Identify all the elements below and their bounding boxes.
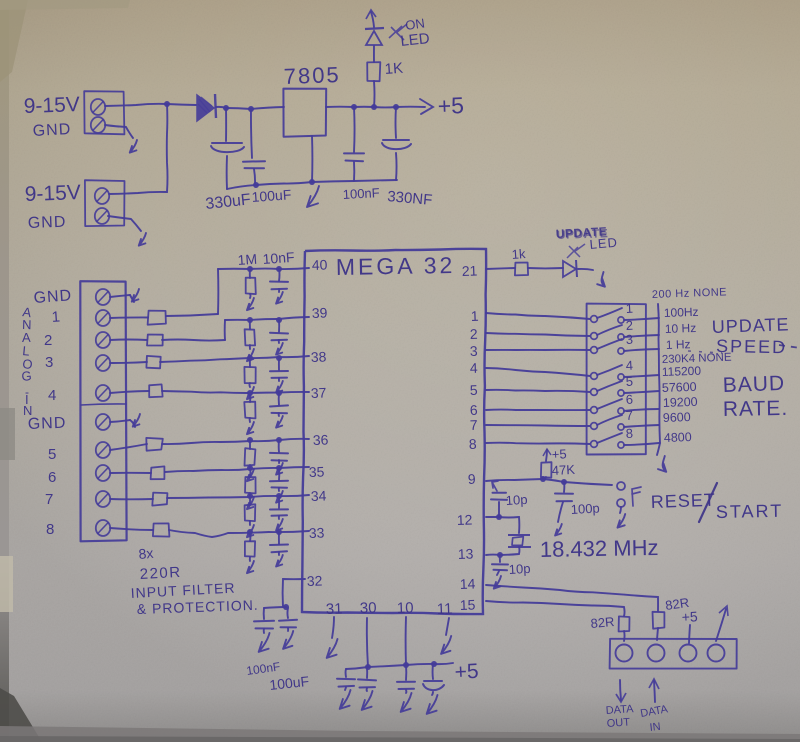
capacitor C3 100nF lead	[353, 107, 356, 152]
svg-text:8: 8	[625, 426, 633, 441]
svg-text:7: 7	[470, 417, 479, 433]
wire J1.2 hook to ground	[105, 125, 133, 138]
switch S1.3 throw contact	[618, 348, 624, 354]
resistor R1M-7 lead	[249, 496, 251, 505]
svg-text:19200: 19200	[663, 395, 698, 410]
wire U1 pin3 to switch S1.3	[486, 349, 590, 351]
label 9600	[663, 410, 691, 425]
ground rail (input side)	[227, 182, 312, 189]
svg-text:37: 37	[311, 384, 327, 401]
capacitor C10n-1 10nF	[270, 282, 288, 290]
wire R2 to filter net 1	[166, 314, 218, 316]
wire reset node to node C100p	[543, 479, 564, 482]
label 115200	[662, 364, 702, 379]
switch S1.2 lever	[597, 325, 622, 335]
ground below C13	[494, 571, 501, 589]
capacitor C6 100uF	[279, 620, 297, 628]
svg-text:33: 33	[309, 524, 325, 541]
label 7805	[283, 62, 341, 89]
node filter2C junction	[276, 317, 282, 323]
J4 screw terminal 3	[96, 332, 110, 348]
J5.3 +5 lead	[689, 625, 690, 643]
C11 ground tail	[555, 502, 563, 536]
ground below C10n-3	[276, 378, 283, 393]
node filter4R junction	[247, 390, 253, 396]
svg-text:57600: 57600	[662, 380, 697, 395]
U1 pin 1 number label	[471, 308, 480, 324]
node X1b junction	[497, 552, 503, 558]
wire S1.5 to common bus	[624, 391, 659, 393]
U1 pin 12 number label	[457, 511, 473, 528]
ground below pin11	[441, 636, 451, 654]
node A junction	[164, 101, 170, 107]
U1 pin 6 number label	[470, 402, 479, 418]
U1 pin 30 number label	[360, 599, 377, 617]
capacitor C4 330nF (electrolytic)	[382, 140, 411, 149]
wire J4.5 to resistor R6	[110, 444, 147, 450]
J4 screw terminal 10	[96, 520, 110, 536]
label & PROTECTION	[137, 597, 259, 617]
node filter6C junction	[276, 465, 282, 471]
switch S1.4 throw contact	[618, 374, 624, 380]
label GND (J1)	[32, 121, 71, 140]
label switch position 4	[625, 358, 633, 373]
resistor R3 47K	[541, 462, 552, 478]
wire J4.8 to resistor R9	[110, 528, 153, 530]
capacitor C13 10p	[492, 564, 508, 570]
J5 pin 3 hole	[680, 645, 697, 662]
dashed line after SPEED	[688, 345, 800, 353]
node G junction	[371, 104, 377, 110]
serial header J5	[610, 639, 737, 669]
U1 pin 9 number label	[468, 471, 477, 487]
wire U1 pin9 to reset node	[486, 479, 543, 481]
label 4800	[664, 430, 692, 445]
switch S1.1 pole contact	[591, 316, 598, 323]
C4 lead to rail	[395, 153, 398, 180]
wire node A down to J2.1	[109, 104, 168, 194]
wire node C to U2 input	[251, 107, 284, 109]
capacitor C10n-6 10nF	[270, 481, 288, 488]
capacitor C13 10p lead	[499, 555, 501, 562]
svg-text:GND: GND	[28, 415, 67, 433]
wire to reset switch	[564, 482, 612, 485]
U1 pin 38 number label	[311, 348, 327, 365]
svg-text:15: 15	[460, 596, 476, 613]
wire U1 pin8 to switch S1.8	[486, 443, 590, 444]
resistor R1M-6 lead	[249, 468, 251, 477]
svg-text:18.432 MHz: 18.432 MHz	[540, 535, 659, 562]
wire R5 to filter net 4	[162, 391, 309, 393]
switch S1.5 pole contact	[591, 389, 598, 396]
switch S1.3 pole contact	[591, 347, 598, 354]
U1 pin31 lead	[332, 617, 334, 638]
switch S1.6 throw contact	[618, 408, 624, 414]
resistor R5 220R (input 4)	[149, 384, 162, 397]
svg-text:13: 13	[458, 545, 474, 562]
LED D3 UPDATE indicator	[563, 244, 585, 277]
wire J2.2 hook to ground	[108, 216, 141, 231]
U1 pin 11 number label	[437, 600, 453, 618]
ground symbol below J2	[139, 233, 146, 246]
capacitor C10n-4 10nF	[270, 405, 288, 413]
ground above C12	[492, 481, 498, 491]
svg-text:11: 11	[437, 600, 453, 618]
U1 pin 39 number label	[312, 304, 328, 321]
U1 pin 5 number label	[470, 382, 479, 398]
C1 lead to rail	[226, 156, 228, 189]
ground below C10n-1	[276, 289, 283, 304]
ground below R1M-4	[247, 418, 254, 434]
wire R7 to filter net 6	[165, 467, 309, 472]
C3 lead to rail	[353, 162, 355, 181]
J4 screw terminal 4	[96, 355, 110, 371]
capacitor C10n-8 lead	[278, 532, 280, 544]
wire S1.3 to common bus	[624, 349, 659, 351]
capacitor C9 lead	[405, 665, 407, 680]
switch S1.7 lever	[597, 415, 622, 425]
capacitor C1 330uF lead	[225, 108, 227, 141]
svg-text:10p: 10p	[505, 492, 527, 508]
label switch position 7	[625, 408, 633, 423]
wire U1 pin4 to switch S1.4	[486, 368, 590, 376]
wire J4.1 to resistor R2	[110, 316, 148, 319]
capacitor C7 lead	[345, 669, 347, 677]
wire J4.7 to resistor R8	[110, 498, 153, 500]
svg-text:8: 8	[46, 521, 54, 538]
label GND (J4 mid)	[28, 415, 67, 433]
svg-text:DATA: DATA	[605, 703, 634, 717]
label GND (J2)	[28, 214, 67, 232]
capacitor C10n-3 lead	[278, 358, 280, 370]
svg-text:8x: 8x	[138, 545, 154, 562]
resistor R5 82R	[653, 612, 665, 629]
node C10 junction	[431, 661, 437, 667]
resistor R1M-4 lead	[249, 393, 251, 402]
resistor R1M-1 lead	[249, 269, 251, 278]
R3 lead to node	[544, 477, 546, 479]
ground symbol below U2	[307, 186, 319, 207]
capacitor C10n-2 lead	[278, 320, 280, 332]
switch S1.3 lever	[597, 339, 622, 349]
resistor R1M-7 1M	[245, 504, 256, 521]
resistor R4 220R (input 3)	[146, 356, 160, 368]
svg-text:115200: 115200	[662, 364, 702, 379]
switch S1.5 lever	[597, 381, 622, 391]
label 4	[48, 387, 56, 404]
label switch position 3	[625, 332, 633, 347]
ground below C10n-8	[276, 552, 283, 567]
vertical label dash	[25, 385, 29, 399]
svg-text:9-15V: 9-15V	[24, 181, 81, 206]
J4 screw terminal 6	[96, 414, 110, 430]
svg-text:+5: +5	[437, 92, 464, 119]
switch S1.1 lever	[597, 308, 622, 318]
J4 screw terminal 1	[96, 289, 110, 305]
resistor R1M-5 1M	[245, 448, 256, 466]
node filter7R junction	[247, 493, 253, 499]
vertical label ANALOG letter L	[22, 343, 31, 359]
wire D1 to node B	[216, 107, 226, 108]
label switch position 5	[625, 374, 633, 389]
resistor R7 220R (input 6)	[151, 466, 165, 479]
ground below C10n-6	[276, 488, 283, 503]
label 10nF (filter caps)	[262, 249, 295, 267]
wire node F to node G	[354, 106, 374, 108]
label 1	[51, 308, 61, 326]
capacitor C10n-4 lead	[278, 393, 280, 405]
resistor R2 1k	[515, 263, 528, 276]
capacitor C11 100p	[555, 494, 573, 502]
J5 pin 2 hole	[648, 645, 665, 662]
+5 arrow above R3	[543, 449, 551, 461]
wire U2 out to node F	[326, 106, 354, 108]
wire U1 pin1 to switch S1.1	[486, 313, 590, 319]
J5 pin 4 hole	[708, 645, 725, 662]
resistor R1M-2 lead	[249, 320, 251, 329]
svg-text:1M: 1M	[237, 251, 258, 268]
svg-text:1K: 1K	[384, 60, 404, 78]
svg-text:1: 1	[625, 301, 633, 316]
label ON	[404, 15, 425, 33]
node filter4C junction	[276, 390, 282, 396]
node C100p junction	[561, 479, 567, 485]
wire J4.2 to resistor R3	[110, 339, 147, 342]
capacitor C12 10p	[491, 493, 507, 500]
svg-text:SPEED: SPEED	[716, 336, 787, 357]
capacitor C10n-7 lead	[278, 496, 280, 508]
resistor R1 1K lead	[373, 81, 376, 107]
resistor R4 82R	[619, 616, 630, 631]
svg-text:8: 8	[469, 436, 478, 452]
wire R9 to filter net 8	[169, 530, 309, 537]
svg-text:12: 12	[457, 511, 473, 528]
ground below pin31	[327, 639, 338, 658]
label RATE.	[723, 397, 789, 421]
svg-text:4: 4	[625, 358, 633, 373]
svg-text:MEGA 32: MEGA 32	[336, 252, 456, 280]
capacitor C10n-2 10nF	[270, 333, 288, 341]
J5.4 arrow lead	[716, 606, 728, 641]
label BAUD	[722, 372, 785, 397]
node filter7C junction	[276, 493, 282, 499]
resistor R1M-2 1M	[245, 329, 256, 345]
U1 pin 7 number label	[470, 417, 479, 433]
wire U1 pin15 to R4	[486, 601, 625, 616]
svg-text:LED: LED	[400, 30, 431, 50]
svg-text:10nF: 10nF	[262, 249, 295, 267]
node filter1C junction	[276, 266, 282, 272]
svg-text:32: 32	[307, 572, 323, 589]
svg-text:OUT: OUT	[606, 716, 630, 730]
svg-text:6: 6	[48, 469, 56, 486]
wire node B to node C	[226, 108, 251, 109]
svg-text:10p: 10p	[508, 561, 530, 577]
switch S1.7 pole contact	[591, 423, 598, 430]
reset switch SW1 contact 2	[617, 499, 625, 507]
J4 screw terminal 9	[96, 491, 110, 507]
wire U1 pin32 to AREF node	[283, 579, 305, 607]
+5 arrowhead	[420, 99, 433, 114]
DIP switch S1 outline	[587, 304, 646, 455]
switch S1.8 throw contact	[618, 442, 624, 448]
label 330uF	[205, 191, 252, 213]
svg-text:4: 4	[48, 387, 56, 404]
svg-text:82R: 82R	[590, 614, 615, 631]
wire node A to diode D1	[167, 104, 196, 105]
wire U1 pin5 to switch S1.5	[486, 390, 590, 392]
capacitor C10n-6 lead	[278, 468, 280, 480]
svg-text:100p: 100p	[570, 501, 600, 517]
label 7	[45, 491, 53, 508]
capacitor C5 100nF lead	[263, 608, 265, 619]
U1 pin 36 number label	[313, 431, 329, 448]
U1 pin 14 number label	[460, 575, 476, 592]
ground below R1M-6	[247, 493, 254, 509]
label 82R (R4)	[590, 614, 615, 631]
riser wire input1 to pin40 net	[217, 269, 219, 314]
resistor R1M-6 1M	[245, 477, 256, 493]
resistor R1M-3 lead	[249, 358, 251, 367]
resistor R2 220R (input 1)	[148, 311, 166, 325]
label 100uF (C6)	[269, 673, 310, 693]
wire S1.2 to common bus	[624, 335, 659, 337]
switch S1.1 throw contact	[618, 317, 624, 323]
label 2	[44, 332, 52, 349]
node filter2R junction	[247, 317, 253, 323]
switch S1.6 lever	[597, 399, 622, 409]
U1 pin 21 number label	[462, 262, 478, 279]
node E junction (7805 gnd)	[309, 179, 315, 185]
svg-text:100Hz: 100Hz	[664, 305, 699, 320]
label SPEED	[716, 336, 787, 357]
ground hook at J4 GND top	[110, 289, 139, 302]
capacitor C10n-5 lead	[278, 440, 280, 452]
label 220R	[139, 564, 182, 583]
svg-text:9-15V: 9-15V	[23, 93, 80, 118]
resistor R3 220R (input 2)	[147, 335, 163, 346]
svg-text:100uF: 100uF	[251, 186, 292, 205]
svg-text:47K: 47K	[551, 462, 575, 478]
capacitor C5 100nF	[254, 621, 274, 629]
svg-text:40: 40	[312, 256, 328, 273]
ground below C10n-2	[276, 340, 283, 355]
R5 lead to J5.2	[657, 628, 658, 640]
ground below C8	[362, 688, 373, 710]
wire S1.6 to common bus	[624, 409, 659, 411]
svg-text:RATE.: RATE.	[723, 397, 789, 421]
J2 screw terminal pin 1	[95, 188, 109, 204]
svg-text:2: 2	[470, 326, 479, 342]
svg-text:+5: +5	[551, 446, 567, 462]
capacitor C3 100nF	[344, 153, 364, 161]
label 18.432 MHz	[540, 535, 659, 562]
voltage regulator U2 7805	[283, 89, 326, 137]
U2 ground lead	[311, 136, 313, 182]
svg-text:7805: 7805	[283, 62, 341, 89]
switch S1.2 pole contact	[591, 333, 598, 340]
ground after D3	[597, 272, 605, 287]
label switch position 8	[625, 426, 633, 441]
label OUT	[606, 716, 630, 730]
R1 to LED D2 lead	[373, 46, 375, 62]
node filter5R junction	[247, 437, 253, 443]
capacitor C8 lead	[366, 667, 368, 678]
label 3	[45, 354, 53, 371]
capacitor C1 330uF (electrolytic)	[211, 143, 244, 152]
node filter8R junction	[247, 529, 253, 535]
wire S1.8 to common bus	[624, 443, 659, 445]
svg-text:2: 2	[44, 332, 52, 349]
label 100uF	[251, 186, 292, 205]
ground hook at J4 GND mid	[110, 414, 140, 427]
wire R4 to filter net 3	[160, 356, 309, 362]
ground rail (output side)	[312, 180, 397, 182]
label 100Hz	[664, 305, 699, 320]
U1 pin 2 number label	[470, 326, 479, 342]
U1 pin10 lead	[405, 617, 407, 665]
U1 pin 15 number label	[460, 596, 476, 613]
wire AREF node left to C5	[264, 607, 286, 608]
terminal block J2 (9-15V input B)	[85, 180, 125, 226]
svg-text:35: 35	[309, 463, 325, 480]
label LED (D3)	[589, 235, 618, 252]
pin39 net wire	[225, 317, 309, 320]
wire node G to node H	[374, 106, 396, 108]
reset switch SW1 contact 1	[617, 482, 625, 490]
label IN	[649, 721, 661, 734]
ground below C9	[401, 690, 412, 712]
label 1K	[384, 60, 404, 78]
svg-text:10: 10	[397, 599, 414, 617]
switch S1.4 lever	[597, 365, 622, 375]
ground below C5	[259, 629, 270, 652]
node D junction on rail	[253, 182, 259, 188]
U1 pin 3 number label	[470, 343, 479, 359]
R4 lead to J5.1	[623, 631, 626, 641]
node filter6R junction	[247, 465, 253, 471]
wire S1.7 to common bus	[624, 425, 659, 427]
label 1k (R2)	[511, 246, 526, 262]
DATA IN arrow	[649, 679, 659, 702]
resistor R1M-4 1M	[244, 402, 255, 419]
ground below R1M-2	[247, 345, 254, 361]
U1 pin 37 number label	[311, 384, 327, 401]
label RESET	[650, 490, 716, 512]
J4 screw terminal 7	[96, 442, 110, 458]
capacitor C11 100p lead	[563, 482, 565, 492]
label 47K	[551, 462, 575, 478]
capacitor C12 10p lead up	[498, 502, 500, 517]
label switch position 1	[625, 301, 633, 316]
node filter5C junction	[276, 437, 282, 443]
slash RESET/START	[699, 483, 717, 522]
ground below C10n-4	[276, 413, 283, 428]
wire R6 to filter net 5	[162, 439, 309, 444]
U1 pin 34 number label	[311, 487, 327, 504]
svg-text:100nF: 100nF	[342, 185, 380, 202]
label 9-15V (J1)	[23, 93, 80, 118]
resistor R1 1K	[367, 62, 380, 81]
svg-text:GND: GND	[33, 287, 73, 307]
diode D1 (reverse protection)	[197, 94, 216, 121]
svg-text:31: 31	[326, 600, 343, 618]
ground below C6	[283, 628, 293, 649]
node X1a junction	[496, 514, 502, 520]
switch S1.4 pole contact	[591, 373, 598, 380]
wire R2 to LED D3	[528, 267, 563, 269]
capacitor C8 100nF	[358, 679, 376, 687]
